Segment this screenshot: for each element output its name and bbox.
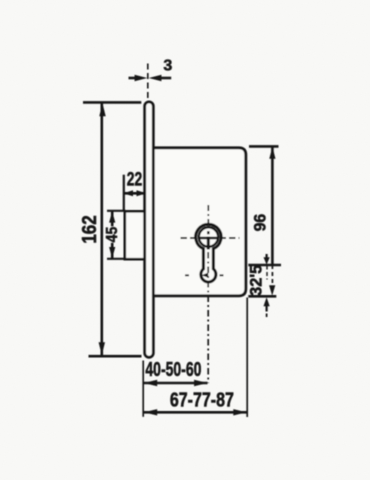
dim 40-50-60: left arrow: [144, 380, 157, 386]
dim 32'5: dashed line continuation: [271, 265, 273, 286]
dim 22: dimension line: [124, 192, 146, 195]
dim 96: dimension line: [271, 147, 274, 265]
dim 67-77-87: right arrow: [233, 409, 246, 415]
dim 162: top arrow: [99, 103, 105, 116]
cylinder plug (inner circle): [199, 227, 218, 246]
centerline vertical above cylinder: [207, 205, 209, 225]
dim 22: extension line: [123, 175, 125, 211]
crosshair vertical dot: [207, 231, 210, 234]
dim 3: line right segment: [161, 77, 171, 80]
cylinder profile (keyhole): [196, 224, 221, 282]
dim 32'5: below arrow shaft: [266, 306, 268, 312]
dim 32'5: upper extension line: [248, 264, 281, 267]
crosshair horizontal: [198, 237, 219, 240]
dim 3: right arrow: [149, 75, 162, 81]
dim 32'5: hanging arrow shaft: [266, 254, 268, 258]
svg-text:22: 22: [127, 168, 142, 190]
centerline horizontal right of cylinder: [222, 237, 240, 239]
dim 32'5: hanging down-arrow above: [264, 257, 270, 264]
slot bottom tick right: [220, 274, 224, 276]
dim 162: top extension line: [83, 101, 141, 104]
dim 45: top arrow: [109, 211, 115, 222]
dim 40-50-60: dimension line: [144, 382, 208, 385]
dim 45: bottom arrow: [109, 247, 115, 258]
svg-text:96: 96: [251, 214, 269, 232]
dim 45: top extension line: [107, 210, 126, 212]
svg-text:40-50-60: 40-50-60: [145, 357, 201, 380]
slot bottom arrow: [202, 273, 209, 278]
dim 32'5: lower extension line: [248, 295, 276, 298]
crosshair vertical: [207, 237, 210, 250]
dim 67-77-87: dimension line: [144, 411, 248, 414]
centerline horizontal left of cylinder: [181, 237, 197, 239]
dim 40-50-60: right arrow: [194, 380, 207, 386]
bottom dims: right extension line: [246, 298, 248, 418]
faceplate: [145, 102, 154, 357]
dim 67-77-87: left arrow: [144, 409, 157, 415]
dim 162: bottom arrow: [99, 342, 105, 355]
box (left protrusion): [125, 211, 148, 259]
svg-text:3: 3: [163, 58, 172, 75]
dim 22: right arrow: [137, 190, 147, 196]
dim 96: top extension line: [249, 145, 279, 148]
slot bottom tick left: [185, 274, 189, 276]
dim 162: bottom extension line: [89, 355, 142, 358]
svg-text:45: 45: [103, 227, 121, 243]
dim 162: dimension line: [101, 103, 104, 356]
svg-text:162: 162: [78, 215, 101, 243]
dim 45: bottom extension line: [107, 258, 126, 260]
centerline vertical below crosshair to dimension line: [207, 252, 209, 383]
plate centerline (top, dashed): [147, 64, 149, 100]
dim 32'5: bottom down arrow: [269, 285, 275, 295]
svg-text:32'5: 32'5: [246, 265, 265, 296]
dim 3: left arrow: [135, 75, 148, 81]
dim 32'5: below up-arrow: [264, 297, 270, 306]
dim 96: top arrow: [269, 147, 275, 159]
dim 45: dimension line upper: [111, 211, 114, 226]
dim 32'5: thin inner line: [266, 266, 268, 280]
dim 22: left arrow: [123, 190, 133, 196]
dim 32'5: below arrow shaft dash: [266, 314, 268, 318]
dim 45: dimension line lower: [111, 243, 114, 259]
svg-text:67-77-87: 67-77-87: [170, 389, 234, 411]
lock body: [152, 148, 246, 296]
bottom dims: left extension line: [142, 361, 144, 417]
dim 3: line left segment: [129, 77, 136, 80]
